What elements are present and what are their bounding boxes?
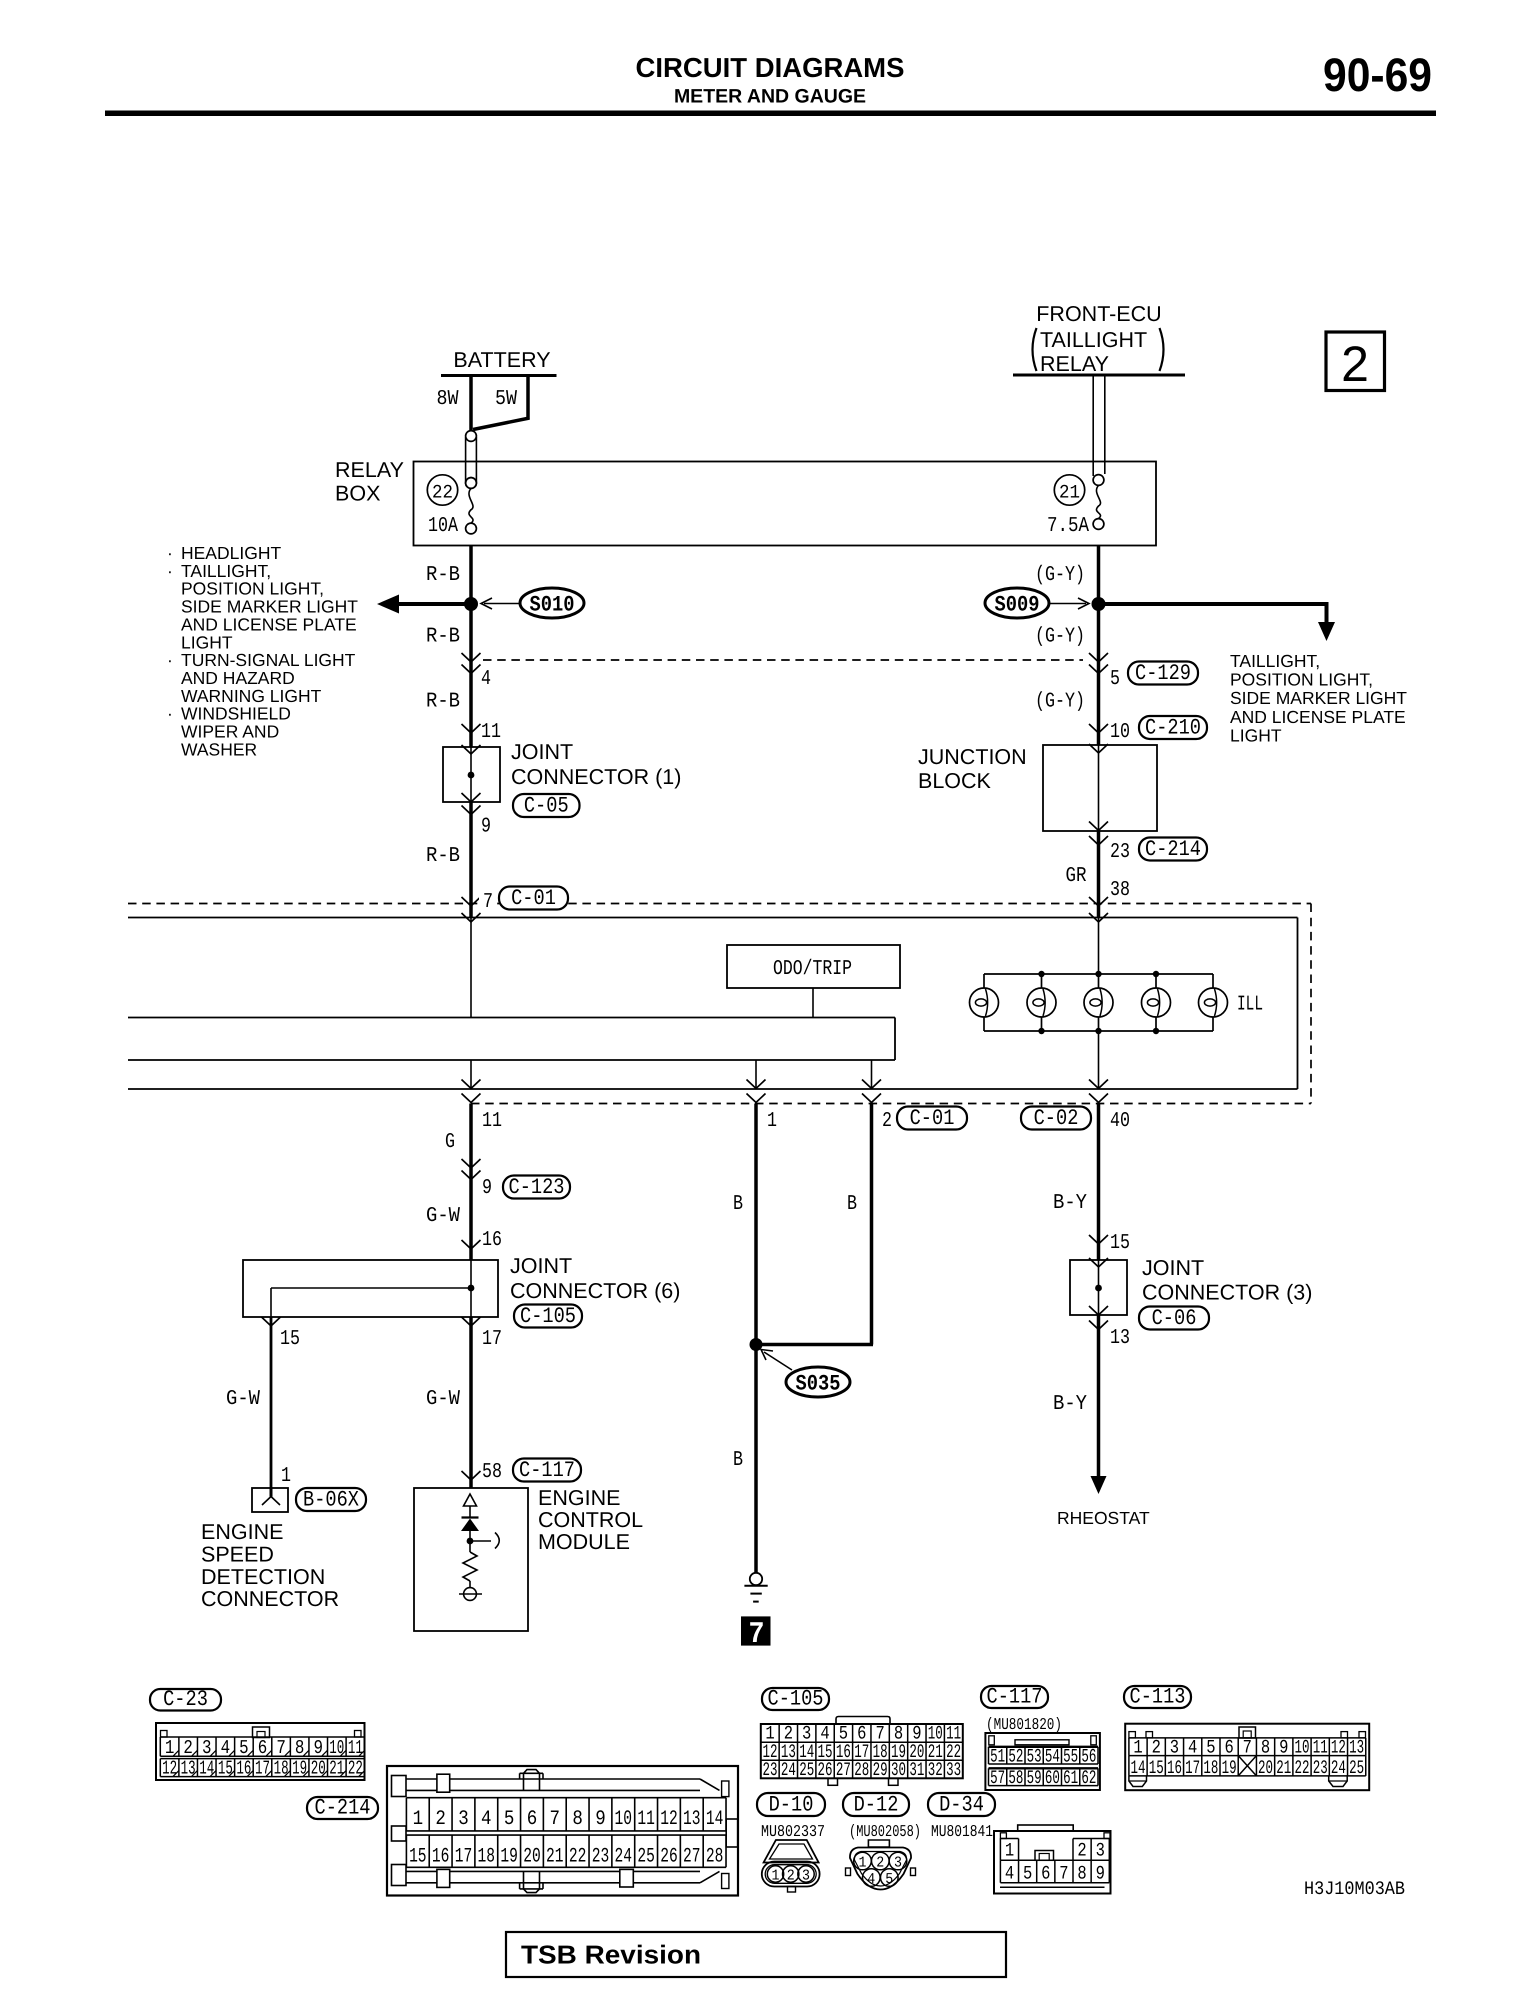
svg-text:CONNECTOR (1): CONNECTOR (1) bbox=[511, 765, 681, 789]
svg-text:55: 55 bbox=[1063, 1746, 1078, 1768]
svg-text:2: 2 bbox=[1077, 1840, 1086, 1862]
svg-text:R-B: R-B bbox=[426, 845, 460, 868]
svg-text:C-117: C-117 bbox=[519, 1458, 575, 1483]
svg-text:D-10: D-10 bbox=[769, 1793, 814, 1818]
svg-text:2: 2 bbox=[1152, 1737, 1161, 1759]
svg-text:D-34: D-34 bbox=[939, 1793, 984, 1818]
svg-text:17: 17 bbox=[455, 1846, 473, 1869]
svg-text:5: 5 bbox=[1206, 1737, 1215, 1759]
svg-text:5W: 5W bbox=[495, 388, 517, 411]
svg-text:14: 14 bbox=[199, 1758, 214, 1780]
svg-text:C-129: C-129 bbox=[1135, 661, 1191, 686]
svg-text:5: 5 bbox=[1023, 1862, 1032, 1884]
svg-text:21: 21 bbox=[329, 1758, 344, 1780]
svg-text:25: 25 bbox=[799, 1759, 814, 1781]
svg-text:8: 8 bbox=[1261, 1737, 1270, 1759]
svg-text:(MU802058): (MU802058) bbox=[849, 1822, 921, 1841]
svg-text:18: 18 bbox=[274, 1758, 289, 1780]
svg-text:TSB Revision: TSB Revision bbox=[521, 1940, 701, 1970]
svg-text:C-210: C-210 bbox=[1145, 716, 1201, 741]
svg-text:G-W: G-W bbox=[426, 1388, 460, 1411]
svg-text:B: B bbox=[847, 1193, 857, 1216]
svg-text:G: G bbox=[445, 1131, 455, 1154]
svg-text:8W: 8W bbox=[437, 388, 459, 411]
svg-text:1: 1 bbox=[281, 1465, 291, 1488]
svg-text:B-06X: B-06X bbox=[303, 1488, 359, 1513]
svg-text:18: 18 bbox=[478, 1846, 496, 1869]
svg-text:·: · bbox=[167, 650, 173, 670]
svg-text:8: 8 bbox=[1077, 1862, 1086, 1884]
svg-text:·: · bbox=[167, 704, 173, 724]
svg-text:B: B bbox=[733, 1193, 743, 1216]
svg-text:BOX: BOX bbox=[335, 482, 380, 506]
svg-text:LIGHT: LIGHT bbox=[1230, 725, 1282, 745]
svg-text:B-Y: B-Y bbox=[1053, 1192, 1087, 1215]
svg-text:4: 4 bbox=[1005, 1862, 1014, 1884]
svg-text:DETECTION: DETECTION bbox=[201, 1565, 325, 1589]
svg-text:1: 1 bbox=[767, 1110, 777, 1133]
svg-text:31: 31 bbox=[909, 1759, 924, 1781]
svg-text:9: 9 bbox=[1279, 1737, 1288, 1759]
svg-text:6: 6 bbox=[1041, 1862, 1050, 1884]
svg-text:1: 1 bbox=[413, 1808, 424, 1831]
svg-text:27: 27 bbox=[683, 1846, 701, 1869]
svg-text:TAILLIGHT,: TAILLIGHT, bbox=[1230, 651, 1320, 671]
svg-text:24: 24 bbox=[1331, 1757, 1346, 1779]
svg-text:1: 1 bbox=[772, 1868, 780, 1885]
svg-text:JOINT: JOINT bbox=[511, 740, 573, 764]
svg-text:28: 28 bbox=[854, 1759, 869, 1781]
svg-text:GR: GR bbox=[1066, 865, 1087, 888]
svg-text:10: 10 bbox=[1294, 1737, 1309, 1759]
svg-text:H3J10M03AB: H3J10M03AB bbox=[1304, 1878, 1405, 1900]
svg-text:(MU801820): (MU801820) bbox=[986, 1715, 1062, 1734]
svg-text:15: 15 bbox=[218, 1758, 233, 1780]
svg-text:16: 16 bbox=[1167, 1757, 1182, 1779]
svg-text:S009: S009 bbox=[995, 593, 1040, 618]
svg-text:(G-Y): (G-Y) bbox=[1035, 626, 1085, 649]
svg-text:BATTERY: BATTERY bbox=[453, 348, 550, 372]
svg-text:C-01: C-01 bbox=[511, 886, 556, 911]
svg-text:58: 58 bbox=[482, 1461, 502, 1484]
svg-text:7: 7 bbox=[1243, 1737, 1252, 1759]
svg-text:2: 2 bbox=[435, 1808, 446, 1831]
svg-text:16: 16 bbox=[482, 1229, 502, 1252]
svg-text:19: 19 bbox=[1222, 1757, 1237, 1779]
svg-text:5: 5 bbox=[1110, 668, 1120, 691]
svg-text:MODULE: MODULE bbox=[538, 1530, 630, 1554]
svg-text:20: 20 bbox=[523, 1846, 541, 1869]
svg-text:3: 3 bbox=[1170, 1737, 1179, 1759]
svg-text:3: 3 bbox=[458, 1808, 469, 1831]
svg-text:7: 7 bbox=[483, 891, 493, 914]
svg-text:MU802337: MU802337 bbox=[761, 1822, 825, 1841]
svg-text:R-B: R-B bbox=[426, 626, 460, 649]
svg-text:TAILLIGHT: TAILLIGHT bbox=[1040, 328, 1147, 352]
svg-text:C-105: C-105 bbox=[768, 1687, 824, 1712]
svg-text:90-69: 90-69 bbox=[1323, 48, 1432, 101]
svg-text:2: 2 bbox=[882, 1110, 892, 1133]
svg-text:58: 58 bbox=[1008, 1767, 1023, 1789]
svg-text:4: 4 bbox=[481, 668, 491, 691]
svg-text:11: 11 bbox=[1313, 1737, 1328, 1759]
svg-text:15: 15 bbox=[409, 1846, 427, 1869]
svg-text:21: 21 bbox=[1276, 1757, 1291, 1779]
svg-text:20: 20 bbox=[311, 1758, 326, 1780]
svg-text:28: 28 bbox=[706, 1846, 724, 1869]
svg-text:10: 10 bbox=[1110, 721, 1130, 744]
svg-text:FRONT-ECU: FRONT-ECU bbox=[1036, 302, 1161, 326]
svg-text:24: 24 bbox=[615, 1846, 633, 1869]
svg-text:CONNECTOR (3): CONNECTOR (3) bbox=[1142, 1281, 1312, 1305]
svg-text:11: 11 bbox=[482, 1110, 502, 1133]
svg-text:38: 38 bbox=[1110, 879, 1130, 902]
svg-text:C-214: C-214 bbox=[315, 1796, 371, 1821]
svg-text:2: 2 bbox=[876, 1855, 884, 1872]
svg-text:METER AND GAUGE: METER AND GAUGE bbox=[674, 86, 866, 108]
svg-text:14: 14 bbox=[706, 1808, 724, 1831]
svg-text:21: 21 bbox=[546, 1846, 564, 1869]
svg-text:S035: S035 bbox=[796, 1372, 841, 1397]
svg-text:JOINT: JOINT bbox=[510, 1254, 572, 1278]
svg-text:10: 10 bbox=[615, 1808, 633, 1831]
svg-text:5: 5 bbox=[885, 1871, 893, 1888]
svg-text:62: 62 bbox=[1081, 1767, 1096, 1789]
svg-text:23: 23 bbox=[762, 1759, 777, 1781]
svg-text:SIDE MARKER LIGHT: SIDE MARKER LIGHT bbox=[1230, 688, 1407, 708]
svg-text:24: 24 bbox=[781, 1759, 796, 1781]
svg-text:C-105: C-105 bbox=[520, 1304, 576, 1329]
svg-text:57: 57 bbox=[990, 1767, 1005, 1789]
svg-text:C-123: C-123 bbox=[509, 1175, 565, 1200]
svg-text:RELAY: RELAY bbox=[1040, 352, 1109, 376]
svg-text:WASHER: WASHER bbox=[181, 739, 257, 759]
svg-text:C-113: C-113 bbox=[1130, 1685, 1186, 1710]
svg-text:16: 16 bbox=[236, 1758, 251, 1780]
svg-text:C-214: C-214 bbox=[1145, 837, 1201, 862]
svg-text:1: 1 bbox=[1005, 1840, 1014, 1862]
svg-text:53: 53 bbox=[1027, 1746, 1042, 1768]
svg-text:JOINT: JOINT bbox=[1142, 1256, 1204, 1280]
svg-text:19: 19 bbox=[292, 1758, 307, 1780]
svg-text:22: 22 bbox=[432, 482, 453, 504]
svg-text:25: 25 bbox=[637, 1846, 655, 1869]
svg-text:CIRCUIT DIAGRAMS: CIRCUIT DIAGRAMS bbox=[636, 52, 905, 83]
svg-text:2: 2 bbox=[1341, 336, 1369, 392]
svg-text:7: 7 bbox=[1059, 1862, 1068, 1884]
svg-text:7: 7 bbox=[550, 1808, 561, 1831]
svg-text:JUNCTION: JUNCTION bbox=[918, 745, 1027, 769]
svg-text:G-W: G-W bbox=[426, 1205, 460, 1228]
svg-text:20: 20 bbox=[1258, 1757, 1273, 1779]
svg-text:CONNECTOR: CONNECTOR bbox=[201, 1587, 339, 1611]
svg-text:8: 8 bbox=[572, 1808, 583, 1831]
svg-text:22: 22 bbox=[348, 1758, 363, 1780]
svg-text:52: 52 bbox=[1008, 1746, 1023, 1768]
svg-text:12: 12 bbox=[162, 1758, 177, 1780]
svg-text:C-02: C-02 bbox=[1034, 1106, 1079, 1131]
svg-text:C-06: C-06 bbox=[1152, 1306, 1197, 1331]
svg-text:15: 15 bbox=[1149, 1757, 1164, 1779]
svg-text:C-01: C-01 bbox=[910, 1106, 955, 1131]
svg-text:13: 13 bbox=[1110, 1327, 1130, 1350]
svg-text:51: 51 bbox=[990, 1746, 1005, 1768]
svg-text:54: 54 bbox=[1045, 1746, 1060, 1768]
svg-text:13: 13 bbox=[683, 1808, 701, 1831]
svg-text:23: 23 bbox=[1313, 1757, 1328, 1779]
svg-text:D-12: D-12 bbox=[854, 1793, 899, 1818]
svg-text:C-117: C-117 bbox=[987, 1685, 1043, 1710]
svg-text:22: 22 bbox=[569, 1846, 587, 1869]
svg-text:10A: 10A bbox=[428, 515, 458, 538]
svg-text:CONNECTOR (6): CONNECTOR (6) bbox=[510, 1279, 680, 1303]
svg-text:18: 18 bbox=[1203, 1757, 1218, 1779]
svg-text:59: 59 bbox=[1027, 1767, 1042, 1789]
svg-text:4: 4 bbox=[867, 1871, 875, 1888]
svg-text:RELAY: RELAY bbox=[335, 458, 404, 482]
svg-text:10: 10 bbox=[329, 1737, 344, 1759]
svg-text:19: 19 bbox=[500, 1846, 518, 1869]
svg-text:13: 13 bbox=[181, 1758, 196, 1780]
svg-text:40: 40 bbox=[1110, 1110, 1130, 1133]
svg-text:C-23: C-23 bbox=[163, 1687, 208, 1712]
svg-text:9: 9 bbox=[1096, 1862, 1105, 1884]
svg-text:AND LICENSE PLATE: AND LICENSE PLATE bbox=[1230, 707, 1406, 727]
svg-text:9: 9 bbox=[482, 1177, 492, 1200]
svg-text:15: 15 bbox=[280, 1328, 300, 1351]
svg-text:3: 3 bbox=[802, 1868, 810, 1885]
svg-text:17: 17 bbox=[482, 1328, 502, 1351]
svg-text:13: 13 bbox=[1349, 1737, 1364, 1759]
svg-text:2: 2 bbox=[787, 1868, 795, 1885]
svg-text:12: 12 bbox=[660, 1808, 678, 1831]
svg-text:7.5A: 7.5A bbox=[1047, 515, 1089, 538]
svg-text:SPEED: SPEED bbox=[201, 1542, 274, 1566]
svg-text:4: 4 bbox=[481, 1808, 492, 1831]
svg-text:(G-Y): (G-Y) bbox=[1035, 564, 1085, 587]
svg-text:ILL: ILL bbox=[1237, 994, 1263, 1017]
svg-text:32: 32 bbox=[928, 1759, 943, 1781]
svg-text:22: 22 bbox=[1294, 1757, 1309, 1779]
svg-text:11: 11 bbox=[637, 1808, 655, 1831]
svg-text:·: · bbox=[167, 561, 173, 581]
svg-text:26: 26 bbox=[660, 1846, 678, 1869]
svg-text:5: 5 bbox=[504, 1808, 515, 1831]
svg-text:17: 17 bbox=[1185, 1757, 1200, 1779]
svg-text:15: 15 bbox=[1110, 1232, 1130, 1255]
svg-text:6: 6 bbox=[527, 1808, 538, 1831]
svg-text:33: 33 bbox=[946, 1759, 961, 1781]
svg-text:ENGINE: ENGINE bbox=[201, 1520, 283, 1544]
svg-text:23: 23 bbox=[592, 1846, 610, 1869]
svg-text:23: 23 bbox=[1110, 841, 1130, 864]
svg-text:BLOCK: BLOCK bbox=[918, 769, 992, 793]
svg-text:1: 1 bbox=[859, 1855, 867, 1872]
svg-text:9: 9 bbox=[481, 816, 491, 839]
svg-text:9: 9 bbox=[595, 1808, 606, 1831]
svg-text:RHEOSTAT: RHEOSTAT bbox=[1057, 1508, 1150, 1528]
svg-text:6: 6 bbox=[1224, 1737, 1233, 1759]
svg-text:11: 11 bbox=[348, 1737, 363, 1759]
svg-text:29: 29 bbox=[873, 1759, 888, 1781]
svg-text:G-W: G-W bbox=[226, 1388, 260, 1411]
svg-text:17: 17 bbox=[255, 1758, 270, 1780]
svg-text:14: 14 bbox=[1131, 1757, 1146, 1779]
svg-text:61: 61 bbox=[1063, 1767, 1078, 1789]
svg-text:B-Y: B-Y bbox=[1053, 1393, 1087, 1416]
svg-text:60: 60 bbox=[1045, 1767, 1060, 1789]
svg-text:4: 4 bbox=[1188, 1737, 1197, 1759]
svg-text:MU801841: MU801841 bbox=[931, 1822, 993, 1841]
svg-text:16: 16 bbox=[432, 1846, 450, 1869]
svg-text:(G-Y): (G-Y) bbox=[1035, 691, 1085, 714]
svg-text:B: B bbox=[733, 1449, 743, 1472]
svg-text:1: 1 bbox=[1133, 1737, 1142, 1759]
svg-text:21: 21 bbox=[1059, 482, 1080, 504]
svg-text:56: 56 bbox=[1081, 1746, 1096, 1768]
svg-text:ENGINE: ENGINE bbox=[538, 1486, 620, 1510]
svg-text:R-B: R-B bbox=[426, 691, 460, 714]
svg-text:3: 3 bbox=[1096, 1840, 1105, 1862]
svg-text:ODO/TRIP: ODO/TRIP bbox=[773, 958, 852, 981]
svg-text:11: 11 bbox=[481, 721, 501, 744]
svg-text:CONTROL: CONTROL bbox=[538, 1508, 643, 1532]
svg-text:R-B: R-B bbox=[426, 564, 460, 587]
svg-text:C-05: C-05 bbox=[524, 794, 569, 819]
svg-text:12: 12 bbox=[1331, 1737, 1346, 1759]
svg-text:S010: S010 bbox=[530, 593, 575, 618]
svg-text:7: 7 bbox=[749, 1618, 765, 1652]
svg-text:25: 25 bbox=[1349, 1757, 1364, 1779]
svg-text:3: 3 bbox=[894, 1855, 902, 1872]
svg-text:POSITION LIGHT,: POSITION LIGHT, bbox=[1230, 670, 1373, 690]
